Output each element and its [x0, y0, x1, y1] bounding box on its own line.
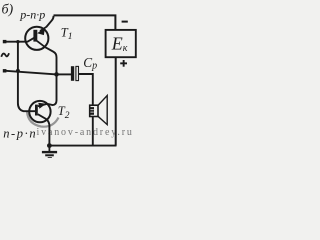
- battery Ek box: [106, 30, 136, 57]
- ac source symbol: [1, 53, 9, 57]
- speaker: [90, 96, 108, 125]
- transistor T1: [25, 27, 48, 50]
- svg-text:Cp: Cp: [83, 55, 97, 71]
- wire: output node to T2 emitter: [48, 74, 57, 105]
- wire: input top to T1 base: [4, 38, 35, 42]
- junction: crossover dot: [16, 69, 20, 73]
- watermark swoosh: [27, 112, 59, 127]
- input terminal top: [3, 40, 7, 43]
- svg-text:T1: T1: [61, 25, 73, 42]
- wire: T2 collector to ground node: [47, 119, 50, 145]
- wire: T1 emitter to top rail: [46, 16, 53, 27]
- label plus: [120, 60, 127, 67]
- wire: output node to capacitor: [57, 73, 72, 75]
- transistor T2: [29, 101, 50, 122]
- svg-text:Eк: Eк: [111, 33, 128, 54]
- junction: ground node: [47, 143, 52, 148]
- wire: battery positive lead: [115, 57, 117, 146]
- ground: [42, 146, 57, 159]
- label minus: [122, 21, 128, 23]
- junction: base tie point: [16, 40, 19, 43]
- wire: capacitor to speaker: [79, 74, 93, 105]
- wire: T1 collector to output node: [46, 48, 57, 75]
- svg-text:T2: T2: [58, 104, 70, 121]
- svg-text:p-n·p: p-n·p: [19, 7, 45, 21]
- capacitor Cp: [71, 66, 79, 81]
- wire: bottom rail: [49, 145, 116, 147]
- wire: speaker to bottom rail: [92, 117, 94, 146]
- svg-text:б): б): [2, 3, 14, 18]
- svg-text:n-p·n: n-p·n: [3, 127, 37, 141]
- svg-text:ivanov-andrey.ru: ivanov-andrey.ru: [37, 127, 134, 138]
- wire: top rail: [54, 15, 116, 30]
- wire: base bus vertical to T2 base: [18, 42, 35, 112]
- junction: output node: [54, 72, 59, 77]
- wire: input bottom to output node: [4, 71, 57, 75]
- input terminal bottom: [3, 69, 7, 72]
